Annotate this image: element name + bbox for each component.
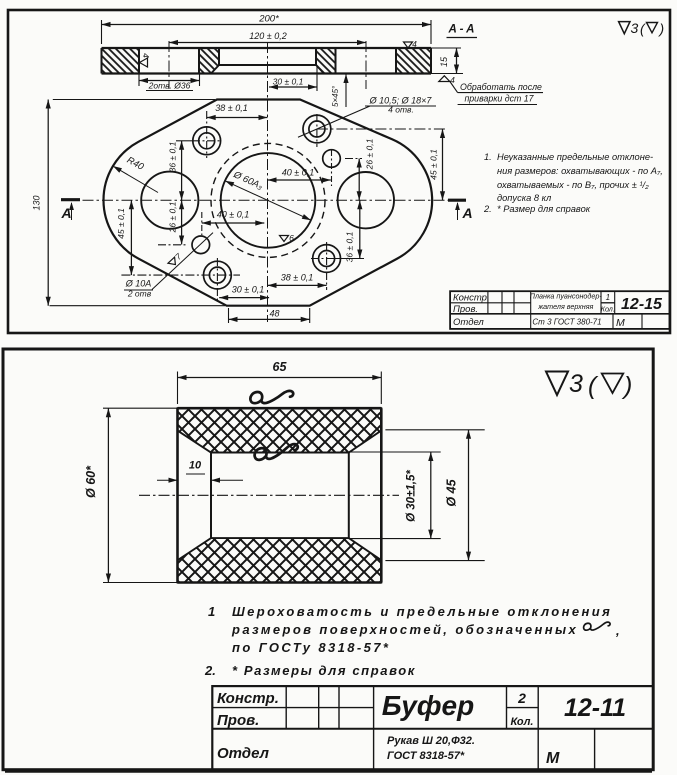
svg-text:Ø 45: Ø 45 bbox=[445, 478, 459, 506]
svg-text:5×45°: 5×45° bbox=[331, 85, 340, 107]
svg-text:Ст 3 ГОСТ 380-71: Ст 3 ГОСТ 380-71 bbox=[532, 318, 601, 327]
svg-text:ГОСТ 8318-57*: ГОСТ 8318-57* bbox=[387, 750, 465, 762]
svg-text:Пров.: Пров. bbox=[217, 712, 259, 729]
svg-text:40 ± 0,1: 40 ± 0,1 bbox=[217, 210, 249, 220]
svg-text:45 ± 0,1: 45 ± 0,1 bbox=[429, 149, 439, 180]
svg-text:,: , bbox=[615, 623, 620, 638]
svg-text:30 ± 0,1: 30 ± 0,1 bbox=[232, 285, 264, 295]
svg-text:1.: 1. bbox=[484, 152, 492, 162]
svg-text:4: 4 bbox=[141, 53, 151, 58]
svg-text:Ø 30±1,5*: Ø 30±1,5* bbox=[406, 470, 418, 522]
svg-text:приварки дст 17: приварки дст 17 bbox=[464, 94, 534, 104]
svg-text:2.: 2. bbox=[483, 204, 492, 214]
svg-text:120 ± 0,2: 120 ± 0,2 bbox=[249, 31, 286, 41]
svg-text:38 ± 0,1: 38 ± 0,1 bbox=[281, 273, 313, 283]
svg-text:10: 10 bbox=[189, 460, 202, 472]
svg-text:30 ± 0,1: 30 ± 0,1 bbox=[273, 77, 304, 87]
svg-text:Констр.: Констр. bbox=[217, 690, 279, 707]
svg-text:6: 6 bbox=[289, 233, 294, 243]
svg-text:1: 1 bbox=[208, 604, 215, 619]
svg-text:26 ± 0,1: 26 ± 0,1 bbox=[167, 201, 177, 233]
svg-text:12-11: 12-11 bbox=[564, 694, 626, 722]
svg-text:Кол.: Кол. bbox=[601, 305, 615, 314]
svg-text:4: 4 bbox=[412, 39, 417, 49]
svg-text:3: 3 bbox=[631, 20, 639, 36]
svg-text:Неуказанные предельные отклоне: Неуказанные предельные отклоне- bbox=[497, 152, 653, 162]
svg-text:Ø 60*: Ø 60* bbox=[84, 465, 98, 498]
svg-text:ния размеров: охватывающих - п: ния размеров: охватывающих - по A₇, bbox=[497, 166, 663, 176]
svg-text:12-15: 12-15 bbox=[621, 296, 663, 313]
svg-text:2.: 2. bbox=[204, 663, 216, 678]
svg-text:2: 2 bbox=[517, 690, 526, 706]
svg-text:Буфер: Буфер bbox=[382, 690, 474, 721]
svg-text:45 ± 0,1: 45 ± 0,1 bbox=[116, 208, 126, 239]
svg-text:26 ± 0,1: 26 ± 0,1 bbox=[364, 138, 374, 170]
svg-text:36 ± 0,1: 36 ± 0,1 bbox=[168, 141, 178, 172]
svg-text:Пров.: Пров. bbox=[453, 304, 478, 315]
svg-text:200*: 200* bbox=[258, 14, 279, 25]
svg-text:Отдел: Отдел bbox=[453, 317, 484, 328]
svg-text:жателя верхняя: жателя верхняя bbox=[537, 302, 593, 311]
svg-text:65: 65 bbox=[273, 360, 288, 374]
svg-text:по ГОСТу 8318-57*: по ГОСТу 8318-57* bbox=[232, 640, 390, 655]
svg-text:15: 15 bbox=[439, 56, 449, 67]
svg-text:охватываемых - по B₇, прочих ±: охватываемых - по B₇, прочих ± ¹/₂ bbox=[497, 180, 649, 190]
svg-text:Отдел: Отдел bbox=[217, 745, 270, 762]
svg-text:40 ± 0,1: 40 ± 0,1 bbox=[282, 168, 314, 178]
svg-text:38 ± 0,1: 38 ± 0,1 bbox=[215, 103, 247, 113]
svg-text:Планка пуансонодер-: Планка пуансонодер- bbox=[530, 292, 603, 301]
svg-text:1: 1 bbox=[606, 293, 610, 302]
svg-text:Рукав Ш 20,Ф32.: Рукав Ш 20,Ф32. bbox=[387, 735, 475, 747]
svg-text:A: A bbox=[461, 205, 472, 221]
svg-text:36 ± 0,1: 36 ± 0,1 bbox=[345, 231, 355, 262]
svg-text:Ø 10A: Ø 10A bbox=[125, 279, 152, 289]
svg-text:Обработать после: Обработать после bbox=[460, 82, 542, 92]
svg-text:М: М bbox=[546, 750, 560, 767]
svg-text:48: 48 bbox=[269, 309, 279, 319]
svg-text:A - A: A - A bbox=[448, 24, 475, 36]
svg-text:Констр.: Констр. bbox=[453, 293, 490, 304]
svg-text:* Размеры для справок: * Размеры для справок bbox=[232, 663, 416, 678]
svg-text:A: A bbox=[60, 205, 71, 221]
svg-text:* Размер для справок: * Размер для справок bbox=[497, 204, 591, 214]
svg-text:2отв. Ø36: 2отв. Ø36 bbox=[148, 81, 191, 91]
svg-text:допуска 8 кл: допуска 8 кл bbox=[497, 193, 552, 203]
svg-text:размеров поверхностей, обознач: размеров поверхностей, обозначенных bbox=[231, 622, 578, 637]
svg-text:3: 3 bbox=[569, 370, 583, 398]
svg-text:130: 130 bbox=[32, 195, 42, 210]
svg-text:Кол.: Кол. bbox=[511, 716, 534, 728]
svg-text:Шероховатость и предельные отк: Шероховатость и предельные отклонения bbox=[232, 604, 612, 619]
svg-text:М: М bbox=[616, 317, 625, 329]
